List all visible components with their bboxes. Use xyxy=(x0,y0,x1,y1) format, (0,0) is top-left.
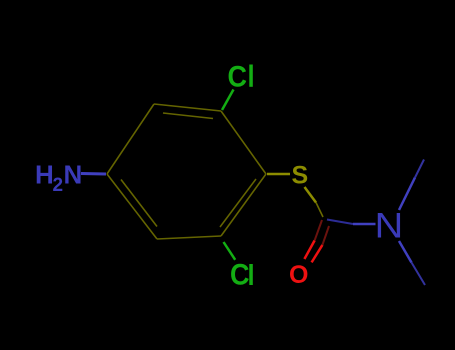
wire bond C-N blue part xyxy=(353,223,376,226)
wire inner double bond lower-left xyxy=(121,180,157,227)
wire ring bond L-TL xyxy=(107,104,154,174)
wire ring bond BR-BL xyxy=(157,236,221,239)
wire C=O double bond line A dark part xyxy=(315,220,322,241)
svg-text:2: 2 xyxy=(53,175,64,196)
wire C=O double bond line A red part xyxy=(304,241,314,260)
svg-text:N: N xyxy=(64,160,83,190)
svg-text:C: C xyxy=(230,258,249,292)
wire C=O double bond line B dark part xyxy=(322,226,329,245)
node Cl bottom label xyxy=(230,258,253,292)
wire bond S-C carbonyl bright part xyxy=(305,187,317,203)
wire bond ring-Cl top xyxy=(222,90,234,111)
wire inner double bond lower-right xyxy=(220,179,256,227)
svg-text:S: S xyxy=(292,162,309,190)
wire ring bond TR-R xyxy=(221,111,266,174)
node N dimethyl label xyxy=(375,206,404,245)
wire bond N-CH3 top blue part xyxy=(399,178,415,211)
node Cl top label xyxy=(228,60,253,94)
svg-text:N: N xyxy=(375,206,404,245)
wire inner double bond top xyxy=(163,113,213,119)
wire bond ring-S xyxy=(267,173,290,176)
svg-text:O: O xyxy=(289,261,308,289)
wire ring bond BL-L xyxy=(107,174,157,239)
wire ring bond R-BR xyxy=(221,174,266,236)
wire bond ring-Cl bottom xyxy=(224,242,236,260)
svg-text:H: H xyxy=(35,160,54,190)
svg-text:C: C xyxy=(228,60,247,94)
wire ring bond TL-TR xyxy=(154,104,221,111)
node H2N amine label xyxy=(35,160,82,197)
wire bond C-N dark part xyxy=(327,220,353,225)
wire bond S-C carbonyl dark part xyxy=(316,203,323,218)
wire C=O double bond line B red part xyxy=(312,245,323,262)
wire bond N-CH3 bottom dark part xyxy=(412,263,426,286)
wire bond N-CH3 bottom blue part xyxy=(399,241,412,263)
wire bond N-CH3 top dark part xyxy=(415,160,424,178)
wire bond N-ring xyxy=(81,172,106,176)
benzene ring xyxy=(107,104,266,239)
